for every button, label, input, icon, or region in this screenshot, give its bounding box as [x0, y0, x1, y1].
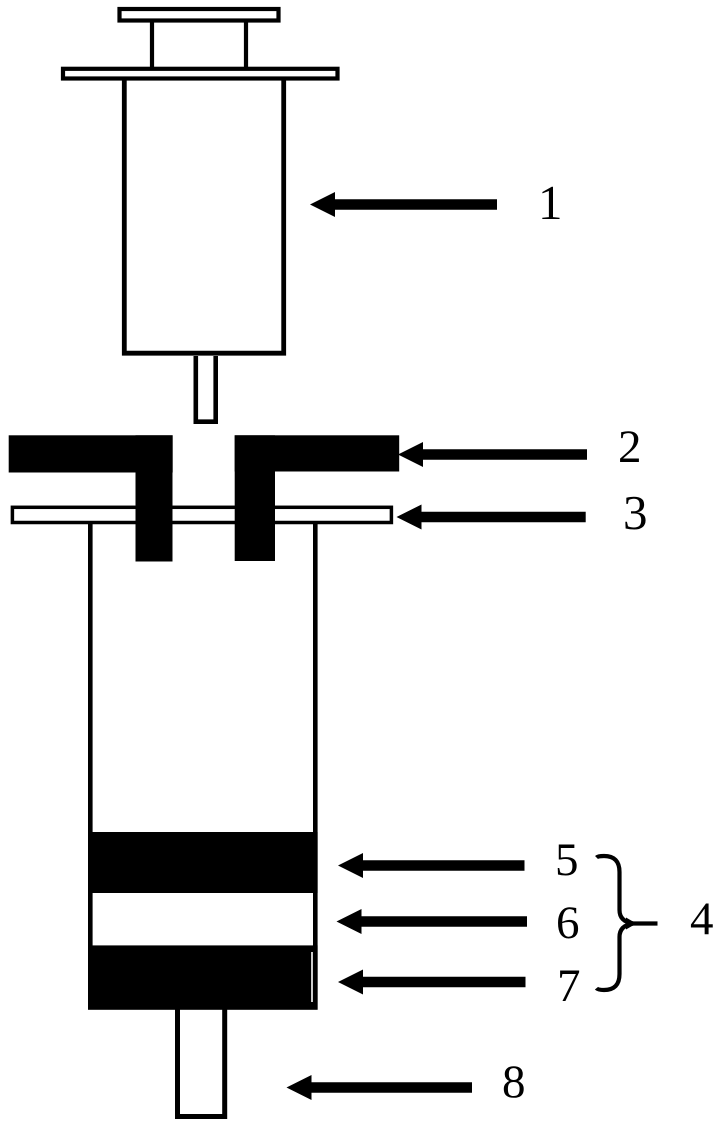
sorbent band 7 — [88, 945, 318, 1009]
column body 4 (right wall) — [313, 524, 318, 1010]
label 4 — [690, 896, 714, 943]
arrow to 8 — [287, 1075, 473, 1100]
filter plate 3 — [12, 507, 391, 522]
plunger stem — [152, 21, 246, 67]
arrow to 6 — [337, 909, 528, 934]
right angled connector block 2 (vertical leg) — [235, 435, 275, 561]
arrow to 3 — [397, 505, 586, 530]
brace grouping bands as 4 — [597, 856, 658, 990]
label 8 — [502, 1059, 526, 1106]
label 2 — [618, 424, 642, 471]
left angled connector block 2 (horizontal bar) — [9, 435, 173, 472]
syringe plunger thumb plate — [120, 9, 279, 21]
label 6 — [556, 900, 580, 947]
label 5 — [555, 837, 579, 884]
label 1 — [538, 178, 563, 227]
label 7 — [557, 963, 581, 1010]
syringe tip tube — [196, 356, 216, 422]
arrow to 2 — [398, 442, 587, 467]
syringe barrel 1 — [124, 80, 283, 353]
label 3 — [623, 488, 648, 537]
arrow to 7 — [338, 970, 526, 995]
outlet tube 8 — [178, 1010, 225, 1117]
arrow to 5 — [338, 853, 525, 878]
band 7 white artifact line — [311, 952, 313, 1002]
left angled connector block 2 (vertical leg) — [136, 435, 173, 561]
column body 4 (left wall) — [88, 524, 93, 1010]
brace tip point — [626, 918, 637, 930]
right angled connector block 2 (horizontal bar) — [235, 435, 400, 471]
sorbent band 5 — [88, 832, 318, 893]
syringe barrel flange — [63, 69, 338, 79]
arrow to 1 — [310, 192, 497, 217]
